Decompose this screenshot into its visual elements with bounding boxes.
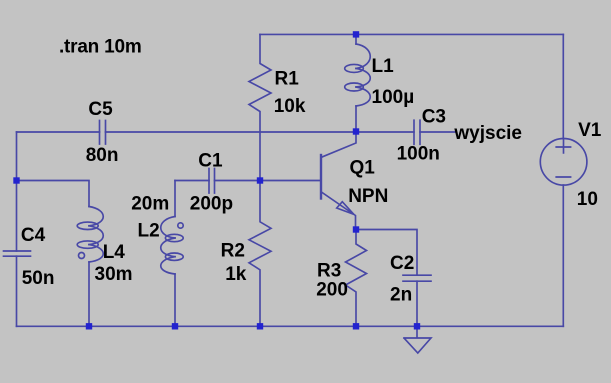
svg-text:NPN: NPN bbox=[348, 186, 388, 207]
svg-text:C1: C1 bbox=[198, 150, 223, 171]
svg-text:V1: V1 bbox=[578, 120, 602, 141]
svg-text:R1: R1 bbox=[275, 68, 300, 89]
svg-text:100n: 100n bbox=[397, 144, 440, 165]
svg-text:C3: C3 bbox=[422, 106, 446, 127]
svg-text:Q1: Q1 bbox=[350, 158, 376, 179]
svg-text:1k: 1k bbox=[225, 264, 247, 285]
svg-text:50n: 50n bbox=[22, 268, 55, 289]
svg-text:20m: 20m bbox=[131, 193, 169, 214]
svg-text:.tran 10m: .tran 10m bbox=[59, 37, 142, 58]
svg-text:wyjscie: wyjscie bbox=[453, 123, 522, 144]
svg-text:100µ: 100µ bbox=[372, 87, 415, 108]
svg-text:80n: 80n bbox=[86, 145, 119, 166]
svg-text:C4: C4 bbox=[21, 225, 46, 246]
svg-text:2n: 2n bbox=[390, 284, 412, 305]
svg-text:L1: L1 bbox=[372, 56, 395, 77]
svg-text:C5: C5 bbox=[88, 99, 113, 120]
svg-text:200p: 200p bbox=[190, 193, 233, 214]
svg-text:200: 200 bbox=[316, 279, 348, 300]
svg-text:L4: L4 bbox=[103, 242, 126, 263]
svg-text:R2: R2 bbox=[221, 241, 245, 262]
svg-text:30m: 30m bbox=[95, 264, 133, 285]
svg-text:L2: L2 bbox=[138, 220, 160, 241]
svg-text:R3: R3 bbox=[317, 260, 341, 281]
svg-text:C2: C2 bbox=[390, 253, 414, 274]
svg-text:10: 10 bbox=[577, 189, 598, 210]
svg-text:10k: 10k bbox=[274, 96, 306, 117]
